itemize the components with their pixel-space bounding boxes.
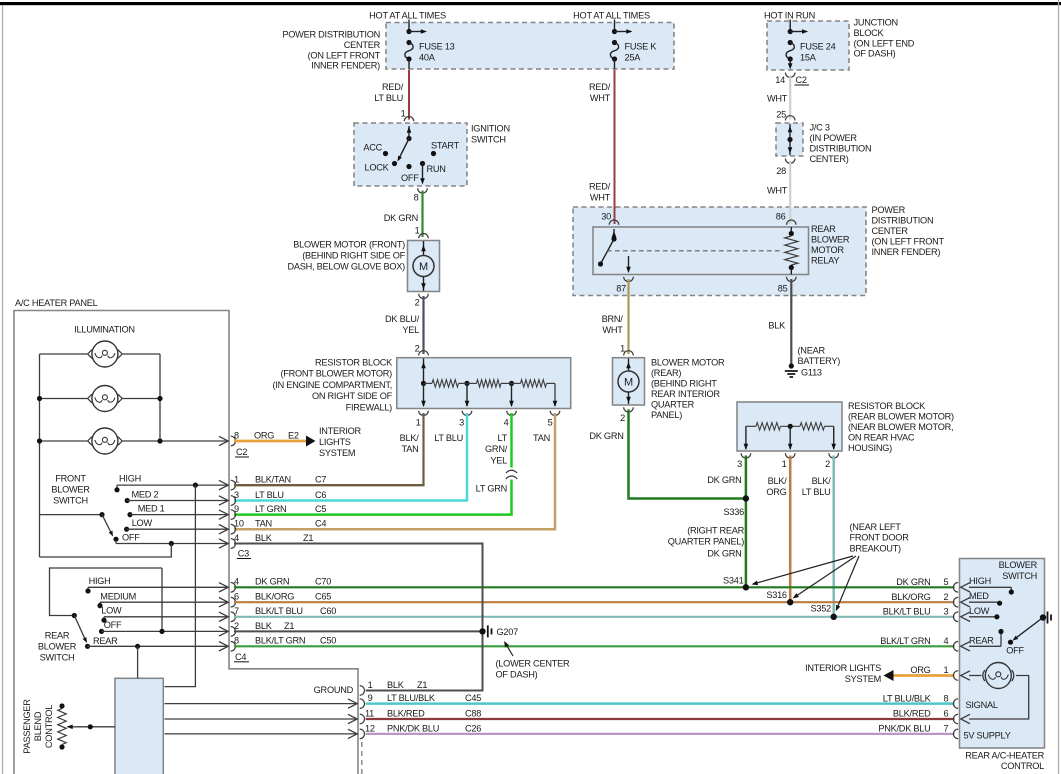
svg-text:3: 3 <box>459 418 464 428</box>
svg-text:15A: 15A <box>800 53 817 63</box>
svg-text:HIGH: HIGH <box>89 576 111 586</box>
svg-text:MOTOR: MOTOR <box>811 245 844 255</box>
svg-text:LIGHTS: LIGHTS <box>319 437 351 447</box>
svg-text:1: 1 <box>782 459 787 469</box>
svg-text:BRN/: BRN/ <box>602 314 624 324</box>
svg-text:LOW: LOW <box>132 518 153 528</box>
svg-text:10: 10 <box>234 519 244 529</box>
svg-text:REAR: REAR <box>93 636 118 646</box>
svg-text:TAN: TAN <box>255 519 272 529</box>
svg-text:DK GRN: DK GRN <box>707 549 741 559</box>
svg-text:OF DASH): OF DASH) <box>854 49 896 59</box>
svg-text:HOT AT ALL TIMES: HOT AT ALL TIMES <box>573 11 650 21</box>
svg-text:LT BLU/BLK: LT BLU/BLK <box>883 693 932 703</box>
svg-text:J/C 3: J/C 3 <box>810 123 830 133</box>
svg-text:RELAY: RELAY <box>811 256 839 266</box>
svg-text:LT GRN: LT GRN <box>476 484 507 494</box>
svg-text:BLK/RED: BLK/RED <box>387 708 425 718</box>
svg-text:(ON LEFT FRONT: (ON LEFT FRONT <box>872 237 945 247</box>
svg-text:PNK/DK BLU: PNK/DK BLU <box>387 723 439 733</box>
svg-text:FRONT DOOR: FRONT DOOR <box>850 533 910 543</box>
svg-text:BLOWER: BLOWER <box>811 235 850 245</box>
svg-text:1: 1 <box>944 665 949 675</box>
svg-text:8: 8 <box>234 636 239 646</box>
svg-text:(LOWER CENTER: (LOWER CENTER <box>496 659 570 669</box>
svg-text:JUNCTION: JUNCTION <box>854 18 898 28</box>
svg-text:C45: C45 <box>465 693 481 703</box>
svg-text:BLOWER: BLOWER <box>999 560 1038 570</box>
svg-text:7: 7 <box>234 606 239 616</box>
svg-text:S352: S352 <box>811 604 832 614</box>
svg-text:BLOCK: BLOCK <box>854 28 885 38</box>
svg-text:C70: C70 <box>315 577 331 587</box>
svg-text:G113: G113 <box>801 368 822 378</box>
svg-text:DK BLU/: DK BLU/ <box>385 314 420 324</box>
svg-text:SWITCH: SWITCH <box>40 653 75 663</box>
svg-text:DISTRIBUTION: DISTRIBUTION <box>872 216 934 226</box>
svg-text:FUSE 24: FUSE 24 <box>800 42 836 52</box>
svg-text:2: 2 <box>825 459 830 469</box>
svg-text:LT: LT <box>497 433 507 443</box>
svg-text:C26: C26 <box>465 723 481 733</box>
svg-text:(FRONT BLOWER MOTOR): (FRONT BLOWER MOTOR) <box>280 369 392 379</box>
svg-text:QUARTER PANEL): QUARTER PANEL) <box>668 537 745 547</box>
svg-text:25: 25 <box>776 110 786 120</box>
svg-text:RED/: RED/ <box>382 82 404 92</box>
svg-text:MED 2: MED 2 <box>132 490 159 500</box>
svg-text:LT BLU: LT BLU <box>374 93 403 103</box>
svg-text:BLK/RED: BLK/RED <box>893 709 931 719</box>
svg-text:5: 5 <box>548 418 553 428</box>
svg-text:2: 2 <box>944 592 949 602</box>
svg-text:PNK/DK BLU: PNK/DK BLU <box>878 724 930 734</box>
svg-text:BLK/: BLK/ <box>812 476 832 486</box>
svg-text:C4: C4 <box>235 652 246 662</box>
svg-text:5: 5 <box>944 577 949 587</box>
svg-text:C60: C60 <box>320 606 336 616</box>
svg-text:CONTROL: CONTROL <box>44 705 54 748</box>
svg-text:PANEL): PANEL) <box>651 410 682 420</box>
svg-text:ACC: ACC <box>363 143 382 153</box>
svg-text:DK GRN: DK GRN <box>896 577 930 587</box>
svg-text:INTERIOR LIGHTS: INTERIOR LIGHTS <box>805 663 881 673</box>
svg-text:WHT: WHT <box>767 186 788 196</box>
svg-text:(NEAR LEFT: (NEAR LEFT <box>850 522 902 532</box>
svg-text:REAR: REAR <box>969 635 994 645</box>
svg-text:BLK: BLK <box>768 321 786 331</box>
svg-text:FUSE 13: FUSE 13 <box>419 42 455 52</box>
svg-text:CONTROL: CONTROL <box>1001 761 1044 771</box>
svg-text:HIGH: HIGH <box>969 576 991 586</box>
svg-text:BLK: BLK <box>255 533 273 543</box>
svg-text:C7: C7 <box>315 475 326 485</box>
svg-text:ON REAR HVAC: ON REAR HVAC <box>848 433 915 443</box>
svg-text:REAR: REAR <box>45 631 70 641</box>
svg-text:HIGH: HIGH <box>119 474 141 484</box>
svg-text:(NEAR BLOWER MOTOR,: (NEAR BLOWER MOTOR, <box>848 422 953 432</box>
svg-text:(BEHIND RIGHT SIDE OF: (BEHIND RIGHT SIDE OF <box>302 251 405 261</box>
svg-text:ORG: ORG <box>254 430 274 440</box>
svg-text:DK GRN: DK GRN <box>255 577 289 587</box>
svg-text:30: 30 <box>601 212 611 222</box>
svg-text:87: 87 <box>616 284 626 294</box>
svg-text:E2: E2 <box>288 430 299 440</box>
svg-text:CENTER: CENTER <box>344 40 381 50</box>
svg-text:REAR A/C-HEATER: REAR A/C-HEATER <box>965 751 1044 761</box>
svg-text:SWITCH: SWITCH <box>1002 571 1037 581</box>
svg-text:INTERIOR: INTERIOR <box>319 426 362 436</box>
svg-text:BLOWER: BLOWER <box>51 485 90 495</box>
svg-text:SYSTEM: SYSTEM <box>845 674 881 684</box>
svg-text:BLK/LT GRN: BLK/LT GRN <box>880 636 930 646</box>
svg-text:OFF: OFF <box>122 532 140 542</box>
svg-text:RED/: RED/ <box>589 182 611 192</box>
svg-text:RESISTOR BLOCK: RESISTOR BLOCK <box>315 358 393 368</box>
svg-text:(RIGHT REAR: (RIGHT REAR <box>687 526 744 536</box>
svg-text:RESISTOR BLOCK: RESISTOR BLOCK <box>848 401 926 411</box>
svg-text:LT BLU: LT BLU <box>802 487 831 497</box>
svg-text:ON RIGHT SIDE OF: ON RIGHT SIDE OF <box>312 391 393 401</box>
svg-text:GRN/: GRN/ <box>485 444 508 454</box>
svg-text:7: 7 <box>944 724 949 734</box>
svg-text:BLOWER MOTOR: BLOWER MOTOR <box>651 358 725 368</box>
svg-text:S316: S316 <box>766 590 787 600</box>
svg-text:8: 8 <box>234 430 239 440</box>
svg-text:1: 1 <box>416 418 421 428</box>
svg-text:C5: C5 <box>315 504 326 514</box>
svg-text:4: 4 <box>944 636 949 646</box>
svg-text:86: 86 <box>776 212 786 222</box>
svg-text:LOW: LOW <box>969 606 990 616</box>
svg-text:C50: C50 <box>320 636 336 646</box>
svg-text:MED: MED <box>969 591 989 601</box>
svg-text:CENTER: CENTER <box>872 226 909 236</box>
svg-text:C6: C6 <box>315 490 326 500</box>
svg-text:WHT: WHT <box>590 193 611 203</box>
svg-text:(NEAR: (NEAR <box>798 346 826 356</box>
svg-text:REAR INTERIOR: REAR INTERIOR <box>651 389 720 399</box>
svg-text:28: 28 <box>776 166 786 176</box>
svg-text:POWER: POWER <box>872 205 906 215</box>
svg-text:Z1: Z1 <box>284 621 294 631</box>
svg-text:RED/: RED/ <box>589 82 611 92</box>
svg-text:IGNITION: IGNITION <box>471 124 510 134</box>
svg-text:DISTRIBUTION: DISTRIBUTION <box>810 144 872 154</box>
svg-text:C3: C3 <box>238 549 249 559</box>
svg-text:(IN POWER: (IN POWER <box>810 133 858 143</box>
svg-text:DK GRN: DK GRN <box>384 213 418 223</box>
svg-text:25A: 25A <box>625 53 642 63</box>
svg-text:2: 2 <box>415 298 420 308</box>
svg-text:Z1: Z1 <box>417 680 427 690</box>
svg-text:11: 11 <box>365 708 374 718</box>
svg-text:YEL: YEL <box>402 325 419 335</box>
svg-text:C88: C88 <box>465 708 481 718</box>
svg-text:40A: 40A <box>419 53 436 63</box>
svg-text:C4: C4 <box>315 519 326 529</box>
svg-text:LT BLU/BLK: LT BLU/BLK <box>387 693 436 703</box>
svg-text:(ON LEFT FRONT: (ON LEFT FRONT <box>308 50 381 60</box>
svg-text:LT BLU: LT BLU <box>255 490 284 500</box>
svg-text:1: 1 <box>401 109 406 119</box>
svg-text:WHT: WHT <box>767 94 788 104</box>
svg-text:PASSENGER: PASSENGER <box>22 699 32 754</box>
svg-text:BLK/LT GRN: BLK/LT GRN <box>255 636 305 646</box>
svg-text:BLK/: BLK/ <box>400 433 420 443</box>
svg-text:BREAKOUT): BREAKOUT) <box>850 543 902 553</box>
svg-text:BLOWER: BLOWER <box>38 642 77 652</box>
svg-text:BATTERY): BATTERY) <box>798 356 841 366</box>
svg-text:ORG: ORG <box>910 665 930 675</box>
svg-text:C2: C2 <box>236 447 247 457</box>
svg-text:1: 1 <box>368 680 373 690</box>
svg-text:BLK/ORG: BLK/ORG <box>255 592 294 602</box>
svg-text:8: 8 <box>414 193 419 203</box>
svg-text:(BEHIND RIGHT: (BEHIND RIGHT <box>651 379 717 389</box>
svg-text:RUN: RUN <box>427 164 446 174</box>
svg-text:SWITCH: SWITCH <box>53 496 88 506</box>
svg-text:BLK/LT BLU: BLK/LT BLU <box>883 607 931 617</box>
svg-text:INNER FENDER): INNER FENDER) <box>311 61 380 71</box>
svg-text:OFF: OFF <box>104 620 122 630</box>
svg-text:14: 14 <box>775 75 785 85</box>
svg-text:FUSE K: FUSE K <box>625 42 658 52</box>
svg-text:1: 1 <box>234 475 239 485</box>
svg-text:(ON LEFT END: (ON LEFT END <box>854 38 915 48</box>
svg-text:(REAR): (REAR) <box>651 368 681 378</box>
svg-text:BLK: BLK <box>255 621 273 631</box>
svg-text:TAN: TAN <box>402 444 419 454</box>
svg-text:MEDIUM: MEDIUM <box>100 591 136 601</box>
svg-text:85: 85 <box>778 284 788 294</box>
svg-text:BLK/: BLK/ <box>768 476 788 486</box>
svg-text:3: 3 <box>944 607 949 617</box>
svg-text:2: 2 <box>620 413 625 423</box>
svg-text:REAR: REAR <box>811 224 836 234</box>
svg-text:6: 6 <box>234 592 239 602</box>
svg-text:6: 6 <box>944 709 949 719</box>
svg-text:4: 4 <box>504 418 509 428</box>
svg-text:START: START <box>431 141 460 151</box>
svg-text:BLOWER MOTOR (FRONT): BLOWER MOTOR (FRONT) <box>293 240 405 250</box>
svg-text:2: 2 <box>234 621 239 631</box>
svg-text:DK GRN: DK GRN <box>707 475 741 485</box>
svg-text:Z1: Z1 <box>303 533 313 543</box>
svg-text:ILLUMINATION: ILLUMINATION <box>74 325 135 335</box>
svg-text:POWER DISTRIBUTION: POWER DISTRIBUTION <box>282 30 380 40</box>
svg-text:9: 9 <box>368 693 373 703</box>
svg-text:1: 1 <box>620 344 625 354</box>
svg-text:DK GRN: DK GRN <box>589 431 623 441</box>
svg-text:BLK/ORG: BLK/ORG <box>891 592 930 602</box>
svg-text:S336: S336 <box>724 507 745 517</box>
svg-text:G207: G207 <box>497 627 519 637</box>
svg-text:S341: S341 <box>723 576 744 586</box>
svg-text:4: 4 <box>234 577 239 587</box>
svg-text:LOCK: LOCK <box>364 163 389 173</box>
svg-text:GROUND: GROUND <box>314 685 354 695</box>
svg-text:(REAR BLOWER MOTOR): (REAR BLOWER MOTOR) <box>848 412 954 422</box>
svg-text:BLK/LT BLU: BLK/LT BLU <box>255 606 303 616</box>
svg-text:WHT: WHT <box>602 325 623 335</box>
svg-text:4: 4 <box>234 533 239 543</box>
svg-text:SWITCH: SWITCH <box>471 135 506 145</box>
svg-text:TAN: TAN <box>533 433 550 443</box>
svg-text:DASH, BELOW GLOVE BOX): DASH, BELOW GLOVE BOX) <box>287 262 405 272</box>
svg-text:INNER FENDER): INNER FENDER) <box>872 247 941 257</box>
svg-text:C65: C65 <box>315 592 331 602</box>
svg-text:BLK: BLK <box>387 680 405 690</box>
svg-text:LT GRN: LT GRN <box>255 504 286 514</box>
svg-text:8: 8 <box>944 693 949 703</box>
svg-text:CENTER): CENTER) <box>810 154 849 164</box>
svg-text:M: M <box>419 261 428 273</box>
svg-text:12: 12 <box>365 723 375 733</box>
svg-text:FRONT: FRONT <box>55 474 86 484</box>
svg-text:OFF: OFF <box>1006 646 1024 656</box>
svg-text:9: 9 <box>234 504 239 514</box>
svg-text:1: 1 <box>415 226 420 236</box>
svg-text:HOT AT ALL TIMES: HOT AT ALL TIMES <box>369 11 446 21</box>
svg-text:A/C HEATER PANEL: A/C HEATER PANEL <box>15 298 98 308</box>
svg-text:ORG: ORG <box>766 487 786 497</box>
svg-text:HOT IN RUN: HOT IN RUN <box>764 11 815 21</box>
svg-text:BLK/TAN: BLK/TAN <box>255 475 291 485</box>
svg-text:OFF: OFF <box>401 173 419 183</box>
svg-text:FIREWALL): FIREWALL) <box>346 402 393 412</box>
svg-text:M: M <box>624 377 633 389</box>
svg-text:SIGNAL: SIGNAL <box>966 700 998 710</box>
svg-text:SYSTEM: SYSTEM <box>319 448 355 458</box>
svg-text:QUARTER: QUARTER <box>651 400 695 410</box>
svg-text:C2: C2 <box>796 75 807 85</box>
svg-text:LT BLU: LT BLU <box>434 433 463 443</box>
svg-text:3: 3 <box>234 490 239 500</box>
svg-text:HOUSING): HOUSING) <box>848 443 892 453</box>
svg-text:WHT: WHT <box>590 93 611 103</box>
svg-text:BLEND: BLEND <box>33 711 43 741</box>
svg-text:OF DASH): OF DASH) <box>496 670 538 680</box>
svg-text:(IN ENGINE COMPARTMENT,: (IN ENGINE COMPARTMENT, <box>273 380 392 390</box>
svg-text:LOW: LOW <box>101 606 122 616</box>
svg-text:2: 2 <box>415 344 420 354</box>
svg-text:YEL: YEL <box>490 455 507 465</box>
svg-text:5V SUPPLY: 5V SUPPLY <box>964 731 1011 741</box>
svg-text:3: 3 <box>737 459 742 469</box>
svg-text:MED 1: MED 1 <box>138 504 165 514</box>
